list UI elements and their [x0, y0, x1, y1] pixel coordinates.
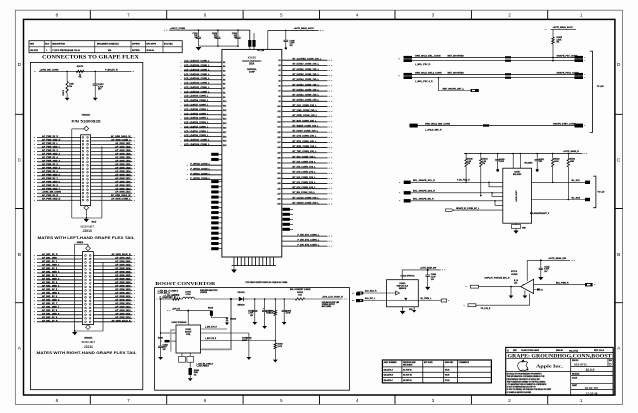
svg-text:GRAPE_STBY_CONN: GRAPE_STBY_CONN [553, 122, 576, 125]
connector J2010 body [81, 135, 91, 206]
svg-text:5%: 5% [557, 42, 560, 44]
svg-text:5%: 5% [468, 163, 471, 165]
svg-text:BT_CMD_CONN_1V8_L: BT_CMD_CONN_1V8_L [293, 110, 318, 112]
svg-text:BT_CLKREQ_CONN_1V8_L: BT_CLKREQ_CONN_1V8_L [293, 59, 322, 61]
svg-text:A27: A27 [277, 192, 280, 195]
svg-text:BT_DATA6_CONN_1V8_L: BT_DATA6_CONN_1V8_L [293, 68, 320, 71]
resistor R1025 [552, 29, 554, 37]
svg-text:SHLD: SHLD [92, 222, 98, 224]
ground C1002 [158, 357, 163, 360]
svg-text:AP_GRN_2024: AP_GRN_2024 [115, 267, 131, 270]
terminal right bus pair 1 [575, 56, 584, 59]
svg-text:ALS_INT_L: ALS_INT_L [365, 297, 376, 300]
terminal P5_1V8 stub [468, 304, 476, 307]
svg-text:AP_GRN_1526: AP_GRN_1526 [115, 145, 131, 148]
svg-text:B: B [617, 252, 620, 258]
component R1008 enable [165, 340, 170, 343]
terminal left bus pair 2 [404, 73, 413, 76]
column tick marks [90, 10, 547, 404]
diode CR1002 [226, 318, 229, 321]
svg-text:AP_GRN_2021: AP_GRN_2021 [115, 277, 131, 280]
resistor R1001 [173, 298, 180, 300]
svg-text:AP_PWR_5V_4: AP_PWR_5V_4 [42, 156, 58, 159]
wire +3V75 to op-amp [527, 259, 570, 261]
wire boost input rail [159, 298, 173, 300]
stub op-amp pin 4 [534, 289, 539, 291]
wire BKL_GRAPE_SCL input [411, 181, 503, 183]
resistor R1006 [189, 368, 192, 375]
left section enclosure box [31, 62, 143, 389]
svg-text:NET_SHORTED: NET_SHORTED [448, 72, 465, 74]
svg-text:TO LCD: TO LCD [598, 192, 606, 194]
svg-text:16.5: 16.5 [514, 283, 517, 285]
terminal ALS_SDA input [357, 292, 363, 295]
connector J1011 top diamond [86, 246, 91, 251]
svg-text:AP_BKL_5V_4: AP_BKL_5V_4 [42, 281, 58, 284]
capacitor C1043 [540, 259, 542, 261]
svg-text:B11: B11 [223, 106, 226, 108]
svg-text:B14: B14 [223, 118, 226, 121]
svg-text:A1: A1 [278, 59, 280, 62]
resistor R1070 [76, 70, 84, 72]
svg-text:MATES WITH RIGHT-HAND GRAPE FL: MATES WITH RIGHT-HAND GRAPE FLEX TAIL [37, 351, 137, 355]
svg-text:04 AUG 08: 04 AUG 08 [403, 374, 412, 377]
ground C1043 [538, 277, 543, 280]
svg-text:P5_1V8_R: P5_1V8_R [481, 308, 491, 310]
svg-text:A5: A5 [278, 79, 280, 82]
ground below C1070 [93, 98, 98, 101]
capacitor C1070 [94, 71, 96, 84]
svg-text:AP_PWR_5V_L: AP_PWR_5V_L [42, 142, 58, 145]
wire bus pair 1 [405, 56, 577, 58]
svg-text:B6: B6 [223, 84, 225, 86]
svg-text:AP_GRN_2023: AP_GRN_2023 [115, 270, 131, 273]
svg-text:051-8711: 051-8711 [30, 50, 38, 52]
resistor R1071 [66, 71, 68, 81]
svg-text:GRN_SHLD_MID_CONN: GRN_SHLD_MID_CONN [425, 123, 450, 125]
svg-text:B17: B17 [223, 132, 226, 134]
svg-text:ASSY NUMBER: ASSY NUMBER [384, 361, 398, 364]
svg-text:LCD_LDATA17_CONN_L: LCD_LDATA17_CONN_L [184, 60, 210, 63]
svg-text:B10: B10 [223, 101, 226, 103]
svg-text:B_16: B_16 [514, 280, 518, 282]
ground op-amp input bias [510, 286, 512, 288]
connector J1011 pin circles [85, 255, 87, 257]
wire op-amp non-inverting input [479, 286, 521, 288]
capacitor C1012 [217, 30, 219, 37]
wire SW rail [195, 298, 239, 300]
svg-text:AP_PWR_5V_7: AP_PWR_5V_7 [42, 177, 58, 180]
svg-text:B5: B5 [223, 79, 225, 81]
svg-text:GRN_SHLD_BKL_CONN: GRN_SHLD_BKL_CONN [415, 55, 441, 57]
svg-text:J2010: J2010 [82, 229, 92, 233]
svg-text:A23: A23 [277, 172, 280, 175]
feedback divider R1003 [274, 343, 276, 349]
highlighted net secondary (gray) [171, 330, 176, 352]
svg-text:BT_RTS_CONN_1V8_L: BT_RTS_CONN_1V8_L [293, 141, 317, 143]
svg-text:AP_GRN_CONN_1: AP_GRN_CONN_1 [111, 138, 131, 141]
splice bus 3 [483, 124, 489, 126]
ground op-amp V- [524, 291, 526, 296]
ground C1031 [536, 169, 539, 172]
svg-text:BT_DATA7_CONN_1V8_L: BT_DATA7_CONN_1V8_L [293, 63, 320, 66]
svg-text:LCD_LDATA14_CONN_L: LCD_LDATA14_CONN_L [184, 73, 210, 76]
terminal BL_SDA [585, 198, 590, 201]
svg-text:A17: A17 [277, 141, 280, 144]
svg-text:AP_GRN_CONN_1: AP_GRN_CONN_1 [111, 198, 131, 201]
svg-text:AP_GRN_1521: AP_GRN_1521 [115, 163, 131, 166]
title block horizontal dividers [506, 353, 614, 390]
terminal BKL_GRAPE_EN [404, 199, 411, 202]
svg-text:U1001 TPS61060: U1001 TPS61060 [172, 322, 187, 324]
ground CR1002 [225, 323, 229, 326]
svg-text:ECO REQ: ECO REQ [164, 44, 173, 46]
svg-text:LCD_LDATA7_CONN_L: LCD_LDATA7_CONN_L [184, 104, 209, 107]
svg-text:L_BKL_P5V_R: L_BKL_P5V_R [415, 64, 431, 66]
svg-text:AP_GRN_1524: AP_GRN_1524 [115, 152, 131, 155]
svg-text:ALS_SDA_R: ALS_SDA_R [365, 290, 377, 293]
svg-text:AP_PWR_GND_N: AP_PWR_GND_N [42, 198, 61, 201]
svg-text:L_BST_FB_R: L_BST_FB_R [205, 338, 217, 340]
svg-text:L_SW_OUT_R: L_SW_OUT_R [205, 327, 218, 329]
svg-text:BT_DATA5_CONN_1V8_L: BT_DATA5_CONN_1V8_L [293, 73, 320, 76]
svg-text:1: 1 [46, 50, 47, 52]
svg-text:A24: A24 [277, 177, 280, 180]
svg-text:LCD_LDATA16_CONN_L: LCD_LDATA16_CONN_L [184, 64, 210, 67]
ground R1006 [188, 378, 193, 381]
resistor R1032 [552, 154, 554, 159]
svg-text:REV IDENT: REV IDENT [403, 365, 413, 367]
terminal left bus 3 [410, 124, 418, 128]
svg-text:BT_IRQ_CONN_1V8_L: BT_IRQ_CONN_1V8_L [293, 156, 317, 158]
svg-text:L_BKL_P5V_2_R: L_BKL_P5V_2_R [415, 81, 433, 83]
wire rail taps to U1007 [513, 154, 520, 169]
ground IC X1010 [231, 270, 237, 273]
svg-text:AP_GRN_1527: AP_GRN_1527 [115, 142, 131, 145]
capacitor C1004 [264, 298, 266, 300]
capacitor C1003 [254, 298, 256, 300]
svg-text:AP_BKL_5V_7: AP_BKL_5V_7 [42, 302, 58, 305]
svg-text:AP_GRN_1515: AP_GRN_1515 [115, 184, 131, 187]
svg-text:A13: A13 [277, 120, 280, 123]
wire +3V05_SW_CONN rail [39, 70, 132, 72]
svg-text:DWG REV: DWG REV [445, 362, 454, 364]
svg-text:BT_DATA0_CONN_1V8_L: BT_DATA0_CONN_1V8_L [293, 99, 320, 102]
ground C1007 [247, 357, 252, 360]
svg-text:B8: B8 [223, 92, 225, 94]
svg-text:0.05: 0.05 [298, 294, 301, 296]
svg-text:NOTICE OF PROPRIETARY PROPERTY: NOTICE OF PROPRIETARY PROPERTY: [507, 373, 542, 376]
svg-text:BT_IO0_CONN_1V8_L: BT_IO0_CONN_1V8_L [293, 187, 317, 189]
svg-text:B4: B4 [223, 74, 225, 77]
svg-text:AP_GRN_SHLD_E: AP_GRN_SHLD_E [112, 253, 132, 256]
ground capacitor bank [196, 47, 202, 50]
svg-text:P_SW_BT2_CONN_L: P_SW_BT2_CONN_L [298, 240, 320, 242]
svg-text:AP_GRN_1516: AP_GRN_1516 [115, 180, 131, 183]
ground U1016 left [400, 311, 406, 314]
svg-text:AP_GRN_2015: AP_GRN_2015 [115, 298, 131, 301]
svg-text:5%: 5% [69, 86, 72, 88]
svg-text:CONF: CONF [249, 72, 256, 74]
svg-text:A11: A11 [277, 110, 280, 113]
svg-text:P_I2C_PULL_R: P_I2C_PULL_R [457, 180, 470, 182]
svg-text:AP_BKL_GND_5: AP_BKL_GND_5 [42, 291, 60, 294]
svg-text:BT_DATA1_CONN_1V8_L: BT_DATA1_CONN_1V8_L [293, 94, 320, 97]
svg-text:GRAPE_P5V2_CONN: GRAPE_P5V2_CONN [557, 71, 579, 74]
svg-text:AP_BKL_GND: AP_BKL_GND [42, 256, 57, 259]
svg-text:A3: A3 [278, 69, 280, 72]
svg-text:B7: B7 [223, 88, 225, 90]
terminal BKL_PWM output [585, 283, 593, 286]
svg-text:Apple Inc.: Apple Inc. [536, 364, 563, 369]
capacitor C1046 [427, 269, 429, 271]
svg-text:A10: A10 [277, 105, 280, 108]
svg-text:SENSOR: SENSOR [399, 288, 407, 290]
svg-text:BT_RST_CONN_1V8_L: BT_RST_CONN_1V8_L [293, 120, 317, 122]
wire op-amp inverting feedback [476, 294, 530, 306]
svg-text:BT_EN_CONN_1V8_L: BT_EN_CONN_1V8_L [293, 192, 316, 194]
ground below R1071 [65, 98, 70, 101]
svg-text:LCD_LDATA15_CONN_L: LCD_LDATA15_CONN_L [184, 68, 210, 71]
svg-text:+3V75_MAIN_AVCC: +3V75_MAIN_AVCC [553, 26, 574, 29]
svg-text:AP_GRN_1519: AP_GRN_1519 [115, 170, 131, 173]
svg-text:AP_GRN_2016: AP_GRN_2016 [115, 295, 131, 298]
svg-text:BT_VDDIO_CONN_1V8_L: BT_VDDIO_CONN_1V8_L [293, 203, 320, 205]
svg-text:BKL2GRAPESHIFT_U: BKL2GRAPESHIFT_U [530, 212, 550, 215]
capacitor C1007 [201, 332, 249, 334]
svg-text:AP_GRN_1523: AP_GRN_1523 [115, 156, 131, 159]
svg-text:A19: A19 [277, 151, 280, 154]
svg-text:P_BKL5V_R: P_BKL5V_R [105, 69, 118, 71]
wire +3V75 rail (C region) [464, 153, 583, 155]
svg-text:AP_GRN_1518: AP_GRN_1518 [115, 173, 131, 176]
svg-text:BL_SDA: BL_SDA [572, 196, 581, 199]
svg-text:7.1 ECO PRE-RELEASE 7.31.06: 7.1 ECO PRE-RELEASE 7.31.06 [52, 49, 80, 52]
svg-text:LCD_LDATA0_CONN_L: LCD_LDATA0_CONN_L [184, 134, 209, 137]
svg-text:13.7K: 13.7K [278, 346, 283, 348]
assembly revision table [382, 360, 491, 383]
connector J2010 left pin wires and net labels [37, 137, 81, 200]
svg-text:BT_DATA4_CONN_1V8_L: BT_DATA4_CONN_1V8_L [293, 78, 320, 81]
op-amp U1005 triangle [521, 279, 534, 293]
svg-text:+3V75_MAIN_R: +3V75_MAIN_R [563, 150, 579, 153]
IC U1001 bottom pin boxes [182, 353, 190, 356]
capacitor C1030 [497, 154, 499, 160]
svg-text:AP_PWR_GND_N: AP_PWR_GND_N [42, 138, 61, 141]
svg-text:AP_PWR_GND_7: AP_PWR_GND_7 [42, 187, 61, 190]
svg-text:AP_PWR_GND_5: AP_PWR_GND_5 [42, 173, 61, 176]
svg-text:REV 10.0.0: REV 10.0.0 [594, 350, 605, 352]
revision history table [29, 41, 182, 53]
dashes after right terminals [584, 56, 585, 58]
svg-text:BT_IO5_CONN_1V8_L: BT_IO5_CONN_1V8_L [293, 161, 317, 163]
svg-text:U1016: U1016 [399, 283, 406, 285]
svg-text:LCD_LDATA3_CONN_L: LCD_LDATA3_CONN_L [184, 121, 209, 124]
svg-text:R1008: R1008 [158, 338, 163, 340]
connector J1011 right shield rail [75, 262, 103, 331]
svg-text:GROUNDHOG: GROUNDHOG [242, 59, 262, 63]
svg-text:0.1UF: 0.1UF [499, 161, 504, 163]
svg-text:CR1001: CR1001 [237, 292, 245, 294]
svg-text:MBR130: MBR130 [238, 304, 245, 306]
svg-text:R1009: R1009 [208, 308, 213, 310]
svg-text:BT_CLK32_CONN_1V8_L: BT_CLK32_CONN_1V8_L [293, 197, 320, 199]
svg-text:BKL_PWM_R: BKL_PWM_R [556, 282, 569, 284]
svg-text:06 SEP 08: 06 SEP 08 [403, 380, 411, 382]
connector J2010 right pin wires and net labels [91, 137, 133, 200]
IC U1016 body [387, 280, 419, 307]
svg-text:B13: B13 [223, 114, 226, 116]
svg-text:AP_GRN_1525: AP_GRN_1525 [115, 149, 131, 152]
svg-text:BT_CTS_CONN_1V8_L: BT_CTS_CONN_1V8_L [293, 136, 317, 138]
svg-text:GRAPE: GROUNDHOG,CONN,BOOST: GRAPE: GROUNDHOG,CONN,BOOST [508, 353, 613, 359]
svg-text:05-08: 05-08 [445, 369, 450, 371]
svg-text:TO LCD: TO LCD [597, 86, 605, 88]
svg-text:GRAPE_P5V_CONN: GRAPE_P5V_CONN [557, 54, 578, 57]
feedback divider R1005 [275, 298, 277, 300]
svg-text:LCD_LDATA6_CONN_L: LCD_LDATA6_CONN_L [184, 108, 209, 111]
svg-text:SHIELD: SHIELD [77, 242, 84, 244]
wire BL_SDA output [532, 199, 587, 201]
svg-text:+3V05_SW_CONN: +3V05_SW_CONN [40, 69, 59, 71]
svg-text:B3: B3 [223, 71, 225, 73]
resistor R1030 [465, 154, 467, 159]
IC U1007 ground pin box [515, 223, 517, 224]
svg-text:820-2276-A: 820-2276-A [384, 368, 394, 371]
connector J1011 body [82, 252, 93, 325]
terminal BL_SCL [585, 181, 590, 184]
svg-text:100K: 100K [554, 161, 559, 163]
terminal ALS_INT input [357, 299, 363, 302]
svg-text:DESCRIPTION: DESCRIPTION [52, 44, 65, 46]
svg-text:A22: A22 [277, 167, 280, 170]
svg-text:AP_GRN_1522: AP_GRN_1522 [115, 159, 131, 162]
svg-text:C: C [617, 158, 621, 164]
svg-text:AP_PWR_5V_6: AP_PWR_5V_6 [42, 170, 58, 173]
cable bracket TO LCD (C region) [593, 176, 596, 208]
svg-text:BT_WAKE_CONN_1V8_L: BT_WAKE_CONN_1V8_L [293, 124, 320, 127]
terminal BKL_GRAPE_SDA [404, 191, 411, 194]
svg-text:AP_GRN_2013: AP_GRN_2013 [115, 305, 131, 308]
svg-text:A21: A21 [277, 162, 280, 165]
svg-text:CONNECTORS TO GRAPE FLEX: CONNECTORS TO GRAPE FLEX [42, 55, 139, 61]
title block vertical dividers [571, 358, 608, 395]
svg-text:AP_GRN_SHLD_W: AP_GRN_SHLD_W [111, 135, 132, 138]
capacitor C1016 [285, 30, 287, 40]
svg-text:B19: B19 [223, 141, 226, 143]
wire BL_SCL output [532, 181, 587, 183]
svg-text:P_GPIO1_CONN_L: P_GPIO1_CONN_L [190, 173, 210, 175]
svg-text:AP_PWR_5V_3: AP_PWR_5V_3 [42, 149, 58, 152]
svg-text:BT_IO4_CONN_1V8_L: BT_IO4_CONN_1V8_L [293, 166, 317, 169]
svg-text:AP_GRN_2027: AP_GRN_2027 [115, 256, 131, 259]
svg-text:A12: A12 [277, 115, 280, 118]
wire +3V75 drop to IC top [267, 30, 269, 49]
capacitor C1011 [198, 30, 200, 37]
svg-text:06-08: 06-08 [445, 375, 450, 377]
wire capacitor ground bus [199, 45, 239, 47]
svg-text:OKI2015A: OKI2015A [84, 336, 93, 339]
svg-text:B9: B9 [223, 97, 225, 99]
svg-text:BKL CONVERT 1.5MHZ: BKL CONVERT 1.5MHZ [290, 289, 311, 291]
svg-text:AP_GRN_2020: AP_GRN_2020 [115, 281, 131, 284]
svg-text:AP_GRN_2011: AP_GRN_2011 [115, 312, 131, 315]
ferrite FL1000 [248, 40, 251, 47]
svg-text:LCD_LDATA5_CONN_L: LCD_LDATA5_CONN_L [184, 112, 209, 115]
svg-text:BL_SCL: BL_SCL [572, 180, 581, 182]
svg-text:MATES WITH LEFT-HAND GRAPE FLE: MATES WITH LEFT-HAND GRAPE FLEX TAIL [38, 236, 135, 240]
svg-text:10.0.0: 10.0.0 [586, 368, 595, 372]
svg-text:AP_BKL_GND_1: AP_BKL_GND_1 [42, 263, 60, 266]
wire BKL_GRAPE_SDA input [411, 192, 503, 194]
svg-text:II. NOT TO REPRODUCE OR COPY I: II. NOT TO REPRODUCE OR COPY IT [507, 387, 536, 389]
connector J2010 bottom diamond [84, 205, 89, 210]
svg-text:AP_PWR_GND_3: AP_PWR_GND_3 [42, 159, 61, 162]
svg-text:+3V75_MAIN_AVCC: +3V75_MAIN_AVCC [294, 27, 315, 30]
IC X1010 GROUNDHOG body [222, 49, 282, 257]
svg-text:R1070: R1070 [77, 66, 84, 68]
svg-text:AP_GRN_1517: AP_GRN_1517 [115, 177, 131, 180]
svg-text:AP_BKL_5V_R: AP_BKL_5V_R [42, 253, 58, 256]
svg-text:73.2K: 73.2K [269, 313, 274, 315]
svg-text:A4: A4 [278, 74, 280, 77]
svg-text:SC70-5: SC70-5 [511, 271, 517, 273]
node junction dots on rail [66, 71, 68, 73]
svg-text:DISPLAY_FORCE3_BKL_R: DISPLAY_FORCE3_BKL_R [485, 276, 511, 279]
wire single bus 3 [410, 125, 577, 127]
component REF_GRAPE_DET terminal [471, 89, 479, 92]
svg-text:STRING SUPPLY: STRING SUPPLY [322, 304, 336, 306]
terminal BKL_GRAPE_SCL [404, 181, 411, 184]
wire boost output rail [248, 298, 295, 300]
svg-text:L_BST_EN_CONN_R: L_BST_EN_CONN_R [197, 363, 214, 365]
svg-text:A16: A16 [277, 136, 280, 139]
svg-text:+5V0_HV: +5V0_HV [172, 308, 181, 310]
resistor R1031 [480, 154, 482, 159]
svg-text:LCD_LDATA13_CONN_L: LCD_LDATA13_CONN_L [184, 77, 210, 80]
svg-text:AP_GRN_2014: AP_GRN_2014 [115, 302, 131, 305]
wire U1016 top power [402, 270, 441, 280]
svg-text:AP_GRN_2017: AP_GRN_2017 [115, 291, 131, 294]
svg-text:AP_BKL_GND_2: AP_BKL_GND_2 [42, 270, 60, 273]
ground C1003 [252, 322, 257, 325]
diode CR1001 [239, 297, 244, 302]
IC X1010 left pin wires group A [184, 62, 222, 145]
svg-text:LEVEL SHIFT: LEVEL SHIFT [516, 189, 518, 201]
svg-text:BT_DATA2_CONN_1V8_L: BT_DATA2_CONN_1V8_L [293, 88, 320, 91]
svg-text:A: A [507, 349, 509, 352]
boost section enclosure box [155, 288, 350, 391]
off-page terminals right of boost [356, 292, 360, 295]
ground C1030 [496, 169, 499, 172]
ground C1005 [282, 322, 287, 325]
svg-text:AP_BKL_5V_1: AP_BKL_5V_1 [42, 260, 58, 263]
ground J1011 shield [72, 332, 77, 335]
cable bracket TO LCD (D region) [590, 51, 593, 132]
wire U1007 left pin jogs [489, 182, 503, 205]
splice bus pair 1 [505, 56, 511, 58]
ground C1004 [262, 326, 267, 329]
resistor R1009 [210, 311, 213, 316]
IC X1010 right pin wires group A [282, 60, 328, 204]
svg-text:BKL_GRAPE_SCL_R: BKL_GRAPE_SCL_R [413, 179, 435, 182]
svg-text:D: D [18, 62, 22, 68]
capacitor C1031 [536, 154, 538, 160]
svg-text:AP_GRN_2010: AP_GRN_2010 [115, 316, 131, 319]
svg-text:B20: B20 [223, 145, 226, 147]
svg-text:CAGE CODE 04990: CAGE CODE 04990 [521, 349, 540, 352]
svg-text:820-2276-B: 820-2276-B [384, 375, 394, 377]
